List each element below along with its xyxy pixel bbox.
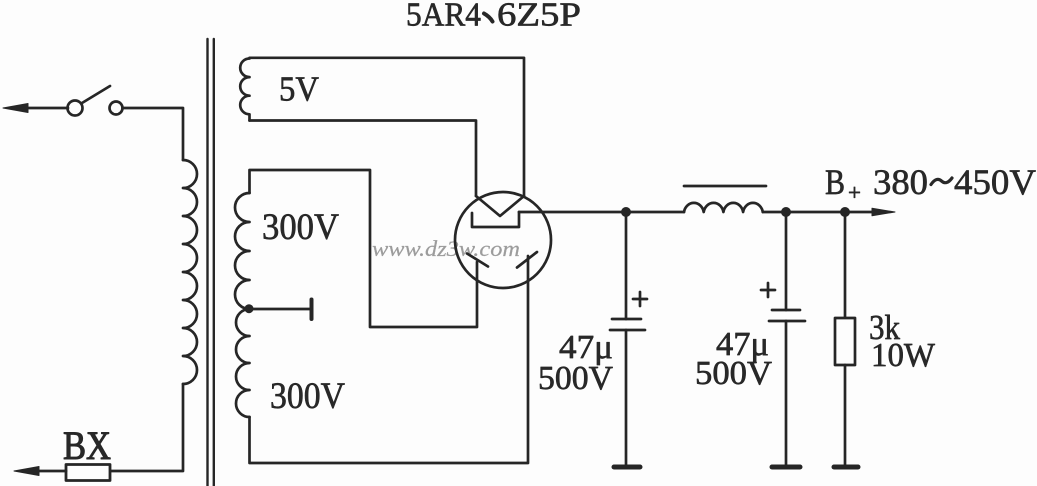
tube V1 envelope circle [455,192,551,288]
wire: center tap lead [250,308,312,311]
svg-text:B: B [825,162,845,202]
wire: 5V bottom to tube left filament pin [250,121,477,197]
capacitor C1 bottom plate [610,329,645,332]
tube V1 right anode plate [517,252,537,268]
svg-text:10W: 10W [871,337,936,374]
wire: C2 bottom lead [785,321,788,467]
wire: R1 bottom lead [844,365,847,467]
arrow AC input top [3,104,28,113]
title 5AR4/6Z5P [406,0,581,34]
svg-text:5V: 5V [279,70,319,109]
transformer 5V filament winding [240,59,249,121]
transformer T primary winding [183,160,197,384]
wire: 300V lower winding to right anode [250,256,529,463]
svg-text:300V: 300V [270,376,345,417]
svg-text:300V: 300V [262,207,339,248]
switch K lever [82,86,110,103]
plus sign C1 [633,292,647,306]
node junction dot cap C2 [781,207,791,217]
choke L1 core bar [684,185,766,188]
svg-text:380: 380 [873,162,928,202]
terminal bar C1 ground [614,465,640,470]
terminal bar C2 ground [772,465,800,470]
transformer core line right [213,39,215,486]
svg-text:500V: 500V [538,360,613,397]
wire: fuse to AC input bottom [36,470,66,473]
transformer 300V upper winding [235,193,250,309]
transformer core line left [206,39,208,486]
tube V1 filament [476,196,524,216]
node junction dot resistor R1 [840,207,850,217]
arrow B+ output [872,208,895,215]
capacitor C1 top plate [612,318,641,321]
wire: cathode output to choke [519,211,684,214]
tube V1 left anode plate [467,254,488,267]
transformer 300V lower winding [236,309,250,417]
node center tap junction dot [245,304,254,313]
terminal bar R1 ground [834,465,858,470]
wire: primary to fuse [110,384,183,471]
arrow AC input bottom [14,467,39,476]
svg-text:www.dz3w.com: www.dz3w.com [372,236,520,261]
wire: C2 top lead [785,212,788,310]
wire: C1 bottom lead [625,330,628,467]
svg-text:450V: 450V [954,162,1036,202]
plus sign C2 [761,283,775,297]
resistor R1 body [835,318,855,365]
choke L1 winding [684,203,763,212]
svg-text:6Z5P: 6Z5P [497,0,581,34]
wire: 5V top to tube right filament pin [250,58,525,196]
wire: AC input top shaft [22,107,68,110]
fuse BX body [66,465,110,481]
svg-text:500V: 500V [695,355,772,392]
svg-text:BX: BX [63,423,111,468]
wire: choke to output arrow [763,211,874,214]
svg-text:5AR4: 5AR4 [406,0,481,34]
center tap terminal bar [310,300,314,320]
wire: C1 top lead [625,212,628,319]
capacitor C2 bottom plate [769,320,805,323]
svg-text:+: + [848,180,861,205]
switch K contact circle left [68,101,83,116]
node junction dot cap C1 [621,207,631,217]
wire: 300V upper winding loop to left anode [250,170,478,327]
tube V1 cathode [472,212,519,227]
wire: switch to transformer primary [123,108,184,160]
wire: R1 top lead [844,212,847,318]
switch K contact circle right [110,102,123,115]
capacitor C2 top plate [772,309,800,312]
label B+ output voltage [825,162,1036,205]
